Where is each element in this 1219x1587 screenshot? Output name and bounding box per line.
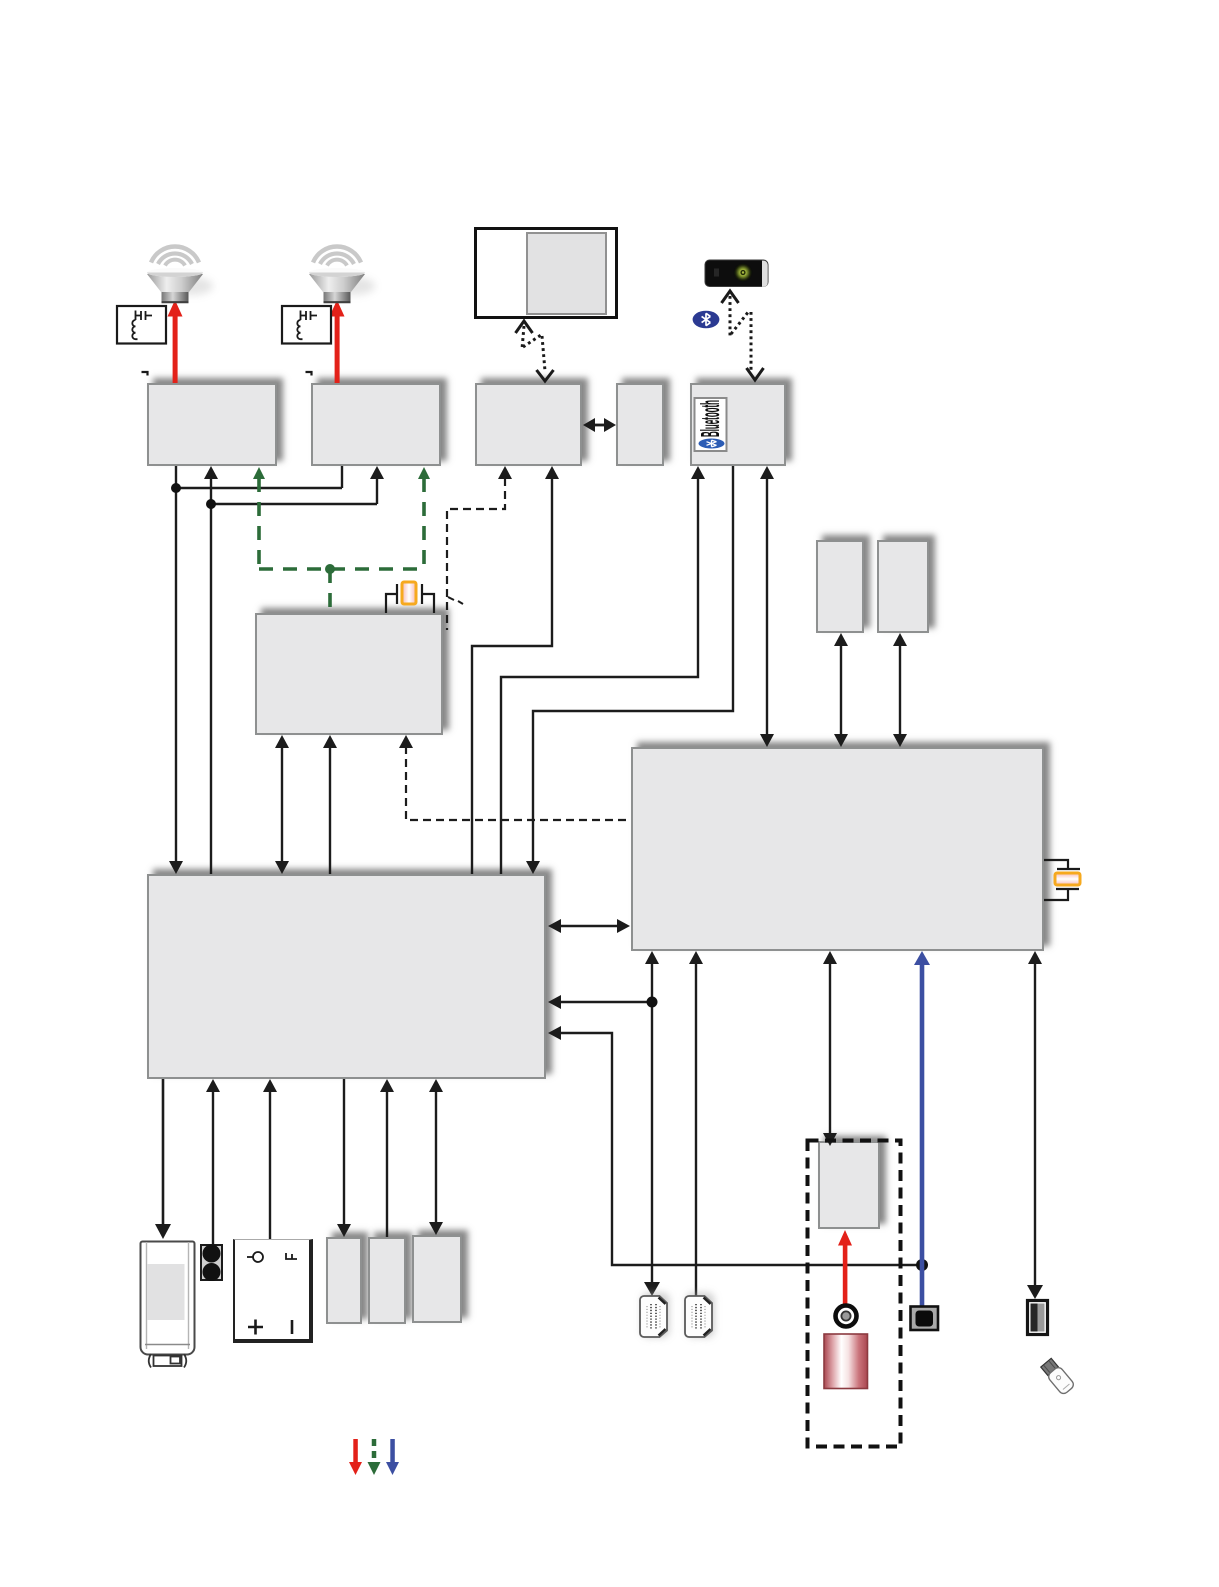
- block B5 (bluetooth module): [690, 383, 786, 466]
- junction dot J3: [647, 997, 658, 1008]
- block S2 (bottom small module 2): [368, 1237, 406, 1324]
- left speaker: [147, 247, 213, 303]
- tick mark above B1: [142, 372, 148, 376]
- blue wire (B8 bottom to optical TOSLINK connector): [920, 960, 925, 1306]
- USB memory stick (tilted): [1040, 1357, 1076, 1395]
- wire WA (box BA to B8, double arrow): [840, 644, 842, 736]
- legend green dashed arrow: [372, 1439, 377, 1462]
- battery cylinder (red gradient): [824, 1334, 868, 1389]
- block B1 (left speaker amplifier module): [147, 383, 277, 466]
- wire W16 (battery to B7 bottom): [269, 1090, 271, 1239]
- block S1 (bottom small module 1): [326, 1237, 362, 1324]
- battery box: [233, 1239, 313, 1343]
- block B3 (display interface module): [475, 383, 582, 466]
- red arrow R1 (B1 to left speaker): [173, 315, 178, 383]
- antenna matching box 2 (coil + capacitor): [282, 306, 331, 344]
- green junction dot: [325, 564, 335, 574]
- wire W5 (B7 top to B3 bottom): [472, 478, 552, 874]
- green dashed wire G4 (T branch down to amp B6): [328, 569, 332, 613]
- wire W1 (B1 bottom to B7 top with branch to B2): [176, 466, 342, 866]
- wire W14 (B7 bottom to iPod): [162, 1079, 165, 1226]
- dotted zigzag Z1 (monitor to B3, wireless): [516, 321, 554, 381]
- wire W4 (B7 top to amp B6 bottom): [329, 746, 331, 874]
- dashed wire D2 (B8 left side to amp B6 bottom): [406, 746, 629, 820]
- block B8 (head unit right): [631, 747, 1044, 951]
- double arrow between B3 and B4: [592, 424, 608, 427]
- HDMI connector 2: [685, 1293, 714, 1337]
- wire W8 (B7 to B8 horizontal double arrow): [558, 925, 621, 928]
- junction dot J1: [171, 483, 181, 493]
- fuse F1 (on top of amp B6): [386, 584, 434, 613]
- bluetooth logo oval (beside phone): [693, 311, 720, 329]
- fuse F2 (right side of B8): [1044, 860, 1080, 900]
- wire W13 (B8 bottom to USB port): [1034, 957, 1036, 1290]
- wire W2 (B7 top up to B1 with branch to B2): [211, 478, 377, 874]
- block S3 (bottom small module 3): [412, 1235, 462, 1323]
- svg-text:Bluetooth: Bluetooth: [695, 400, 725, 437]
- legend blue arrow: [390, 1439, 395, 1463]
- block B2 (right speaker amplifier module): [311, 383, 441, 466]
- junction dot J4 (on blue line): [916, 1259, 928, 1271]
- block B4 (small side module): [616, 383, 664, 466]
- mini jack plug circles: [203, 1245, 221, 1263]
- green dashed wire G2 (to B2 bottom): [422, 478, 426, 569]
- block EB (module inside dashed enclosure): [818, 1141, 880, 1229]
- wire W3 (amp B6 to B7, double arrow): [281, 746, 283, 863]
- wire W12 (B8 bottom to enclosure module, double arrow): [829, 957, 831, 1135]
- antenna matching box 1 (coil + capacitor): [117, 306, 166, 344]
- iPod media player: [141, 1242, 195, 1368]
- USB port connector: [1028, 1301, 1048, 1335]
- block BA (small module A): [816, 540, 864, 633]
- wire W9 (B8 bottom / junction to B7 right and HDMI 1): [557, 957, 652, 1287]
- block B7 (main control unit left): [147, 874, 546, 1079]
- right speaker: [309, 247, 375, 303]
- wire W17 (B7 bottom to small module S1): [343, 1079, 345, 1226]
- red arrow R3 (power connector to enclosure module): [843, 1244, 848, 1305]
- dotted zigzag Z2 (phone to B5, bluetooth wireless): [722, 291, 764, 380]
- junction dot J2: [206, 499, 216, 509]
- bluetooth label plate inside B5: [695, 398, 727, 451]
- wire W18 (small module S2 to B7 bottom): [386, 1090, 388, 1237]
- tick mark above B2: [306, 372, 312, 376]
- wire W10 (B8 bottom to HDMI 2): [695, 957, 697, 1296]
- battery symbols: [247, 1252, 297, 1335]
- mini jack connector box (two plugs): [200, 1244, 223, 1281]
- HDMI connector 1: [640, 1293, 669, 1337]
- smartphone (bluetooth source): [705, 260, 768, 287]
- wire W6b (B5 bottom middle pin to B7 top): [533, 466, 733, 863]
- red arrow R2 (B2 to right speaker): [335, 315, 340, 383]
- green dashed wire G3 (horizontal link): [259, 567, 424, 571]
- wire WB (box BB to B8, double arrow): [899, 644, 901, 736]
- block B6 (amplifier with fuse): [255, 613, 443, 735]
- power connector (circle plug): [836, 1306, 857, 1327]
- wire W15 (mini jack to B7 bottom): [212, 1090, 214, 1244]
- display monitor (TV box): [474, 227, 618, 319]
- wire W7 (B5 to B8, double arrow): [766, 478, 768, 736]
- optical TOSLINK connector: [911, 1307, 939, 1331]
- display monitor screen: [526, 232, 607, 315]
- green dashed wire G1 (to B1 bottom): [257, 478, 261, 569]
- block BB (small module B): [877, 540, 929, 633]
- legend red arrow: [353, 1439, 358, 1463]
- dashed enclosure (external amplifier kit): [808, 1141, 901, 1447]
- wire W6a (B7 top to B5 bottom left pin): [501, 478, 698, 874]
- dashed wire D1 (amp B6 top corner to B3 bottom): [447, 478, 505, 630]
- wire W11 (junction on blue line to B7 right side): [557, 1033, 922, 1265]
- wire W19 (B7 bottom to small module S3, double arrow): [435, 1090, 437, 1224]
